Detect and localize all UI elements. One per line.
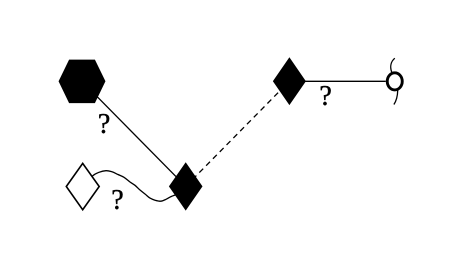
wire: solid link hexagon to center diamond [82,81,186,186]
svg-text:?: ? [98,109,110,140]
node: filled hexagon residue [59,60,105,103]
wire: solid link right diamond to reducing-end circle [289,80,385,82]
node: reducing-end circle [387,73,402,90]
svg-text:?: ? [319,81,331,112]
node: center filled diamond residue [170,163,202,210]
wire: curved link white diamond to center diamond [83,171,184,202]
svg-text:?: ? [111,185,123,216]
wire: dashed link center diamond to right diamond [186,81,290,186]
node: white diamond residue [66,163,99,209]
node: right filled diamond residue [274,58,306,104]
wire: reducing-end squiggle [391,58,398,104]
